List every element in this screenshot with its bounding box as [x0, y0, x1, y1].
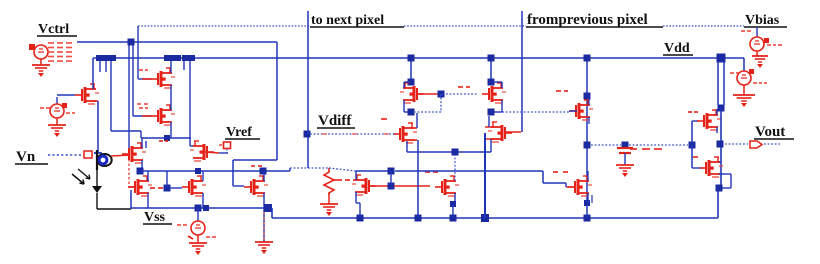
svg-text:Vdiff: Vdiff [318, 113, 352, 129]
svg-text:to next pixel: to next pixel [311, 13, 384, 28]
svg-text:Vdd: Vdd [664, 41, 690, 56]
svg-text:Vctrl: Vctrl [38, 22, 69, 37]
svg-text:fromprevious pixel: fromprevious pixel [527, 12, 648, 28]
svg-text:Vn: Vn [16, 149, 36, 165]
svg-text:Vref: Vref [226, 125, 252, 140]
svg-text:Vout: Vout [755, 124, 785, 140]
svg-text:Vss: Vss [144, 210, 166, 225]
svg-text:Vbias: Vbias [745, 13, 780, 28]
